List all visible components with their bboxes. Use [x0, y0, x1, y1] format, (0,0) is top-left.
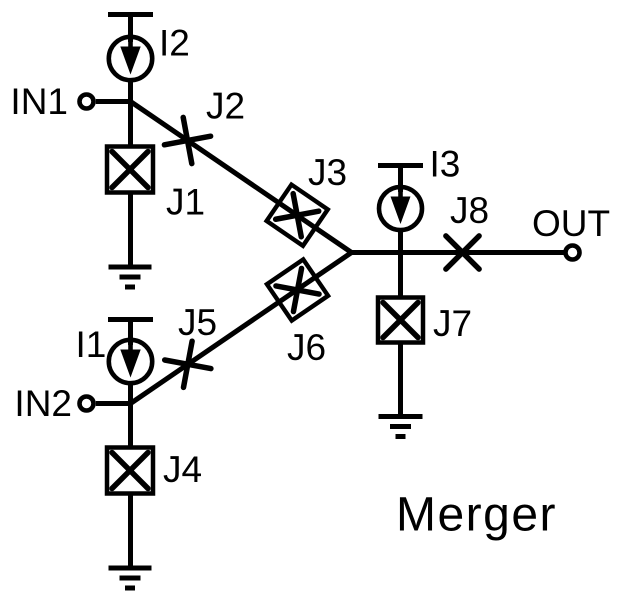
- wire: I2 source to J1 box through node A: [128, 79, 133, 146]
- junction J4 (boxed cross): [107, 448, 153, 494]
- wire: bar to I2 source: [128, 15, 133, 43]
- svg-text:J6: J6: [287, 327, 326, 368]
- current source I3: [379, 187, 422, 230]
- wire: bar to I1 source: [128, 320, 133, 346]
- svg-text:I1: I1: [76, 324, 107, 365]
- wire: I1 branch top terminal bar: [108, 317, 153, 322]
- svg-text:Merger: Merger: [396, 489, 557, 542]
- junction J5 (cross on wire): [165, 341, 211, 387]
- wire: J7 box to ground: [398, 343, 403, 417]
- junction J7 (boxed cross): [378, 298, 423, 343]
- terminal OUT (open circle): [566, 246, 580, 260]
- wire: node B to center node (diagonal through J5, J6): [131, 253, 352, 404]
- wire: IN2 terminal to node B: [96, 401, 131, 406]
- wire: center node to OUT terminal: [352, 250, 564, 255]
- junction J8 (cross on wire): [446, 236, 479, 269]
- current source I2: [109, 37, 152, 80]
- junction J3 (boxed cross, rotated on diagonal wire): [267, 185, 328, 246]
- svg-text:J5: J5: [178, 302, 217, 343]
- wire: IN1 terminal to node A: [96, 99, 131, 104]
- wire: I1 source to J4 box through node B: [128, 382, 133, 447]
- junction J6 (boxed cross, rotated on diagonal wire): [267, 259, 328, 320]
- svg-text:J1: J1: [166, 182, 205, 223]
- wire: I3 source to J7 box through center wire: [398, 229, 403, 297]
- wire: J4 box to ground: [128, 493, 133, 568]
- junction J2 (cross on wire): [164, 117, 210, 163]
- svg-text:IN2: IN2: [14, 383, 72, 424]
- svg-text:J3: J3: [308, 152, 347, 193]
- wire: I3 branch top terminal bar: [378, 163, 423, 168]
- svg-text:IN1: IN1: [10, 81, 68, 122]
- terminal IN2 (open circle): [80, 397, 94, 411]
- svg-text:I3: I3: [430, 144, 461, 185]
- svg-text:J4: J4: [163, 449, 202, 490]
- ground (J7 branch): [379, 417, 423, 437]
- svg-text:OUT: OUT: [532, 203, 610, 244]
- svg-text:J8: J8: [450, 190, 489, 231]
- svg-text:I2: I2: [159, 23, 190, 64]
- current source I1: [109, 340, 152, 383]
- svg-text:J2: J2: [206, 86, 245, 127]
- ground (J1 branch): [109, 267, 152, 287]
- ground (J4 branch): [109, 568, 152, 588]
- wire: node A to center node (diagonal through J2, J3): [131, 102, 352, 253]
- terminal IN1 (open circle): [80, 95, 94, 109]
- svg-text:J7: J7: [433, 303, 472, 344]
- junction J1 (boxed cross): [107, 147, 153, 193]
- wire: bar to I3 source: [398, 166, 403, 193]
- wire: I2 branch top terminal bar: [108, 12, 153, 17]
- wire: J1 box to ground: [128, 192, 133, 267]
